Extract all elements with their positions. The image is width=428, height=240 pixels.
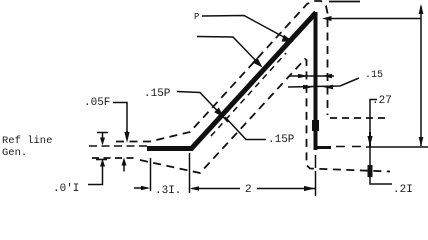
down arrow on x=370 to y=147 xyxy=(367,136,372,147)
svg-text:.0'I: .0'I xyxy=(53,183,79,195)
2 dimension line xyxy=(257,188,307,190)
profile foot xyxy=(314,146,331,149)
right tall dimension line x=421 xyxy=(420,6,422,146)
leader from lower .15P xyxy=(225,117,266,140)
x=102 upper indicator xyxy=(97,133,108,139)
extension line x=315 bottom xyxy=(315,155,317,196)
extension line x=188 xyxy=(189,153,191,193)
svg-text:.05F: .05F xyxy=(84,97,110,109)
svg-text:.27: .27 xyxy=(372,95,392,107)
x=124 lower short indicator xyxy=(122,158,127,166)
double arrow line B y=87 with leader to right text xyxy=(288,78,359,87)
leader 1 from P label xyxy=(202,16,292,42)
dashed line y=118 right of vertical xyxy=(330,117,386,119)
dash-dot line y=147 extension right of foot xyxy=(336,146,428,149)
blob on x=370 at dashed crossing xyxy=(368,165,373,177)
profile thick diagonal xyxy=(191,13,316,150)
smudge on vertical xyxy=(312,120,319,131)
ref line dashes left xyxy=(89,145,148,147)
top edge line piece xyxy=(329,1,360,3)
svg-text:Gen.: Gen. xyxy=(2,147,27,159)
svg-text:Ref line: Ref line xyxy=(2,135,52,147)
x=102 lower indicator with stem to .04I label xyxy=(100,159,105,167)
lower dashed descending transition xyxy=(140,59,390,173)
svg-text:.3I.: .3I. xyxy=(155,185,181,196)
.05F bracket and stem xyxy=(113,103,127,132)
lower dashed tolerance boundary xyxy=(92,157,136,159)
svg-text:.2I: .2I xyxy=(393,184,413,196)
dimension line x=370 (.27 / .21 column) xyxy=(370,100,392,185)
top dimension line y=18 xyxy=(329,18,422,20)
profile thick vertical xyxy=(314,12,318,150)
svg-text:P: P xyxy=(194,12,199,22)
leader 2 from P label xyxy=(197,37,261,67)
upper dashed tolerance boundary xyxy=(116,1,328,142)
tight lower dashed segment along diagonal xyxy=(211,53,286,136)
profile thick horizontal segment xyxy=(147,146,193,151)
.31 dimension arrows xyxy=(134,187,148,189)
svg-text:.15: .15 xyxy=(365,70,383,81)
leader from upper .15P xyxy=(177,92,228,123)
svg-text:.15P: .15P xyxy=(144,88,171,100)
extension line x=150 xyxy=(150,158,152,191)
its top arrow xyxy=(419,4,424,14)
svg-text:.15P: .15P xyxy=(268,134,295,146)
svg-text:2: 2 xyxy=(245,184,252,196)
arrow left end of top line xyxy=(322,16,332,21)
its bottom arrow xyxy=(419,137,424,147)
double arrow line A y=76 xyxy=(290,75,334,77)
